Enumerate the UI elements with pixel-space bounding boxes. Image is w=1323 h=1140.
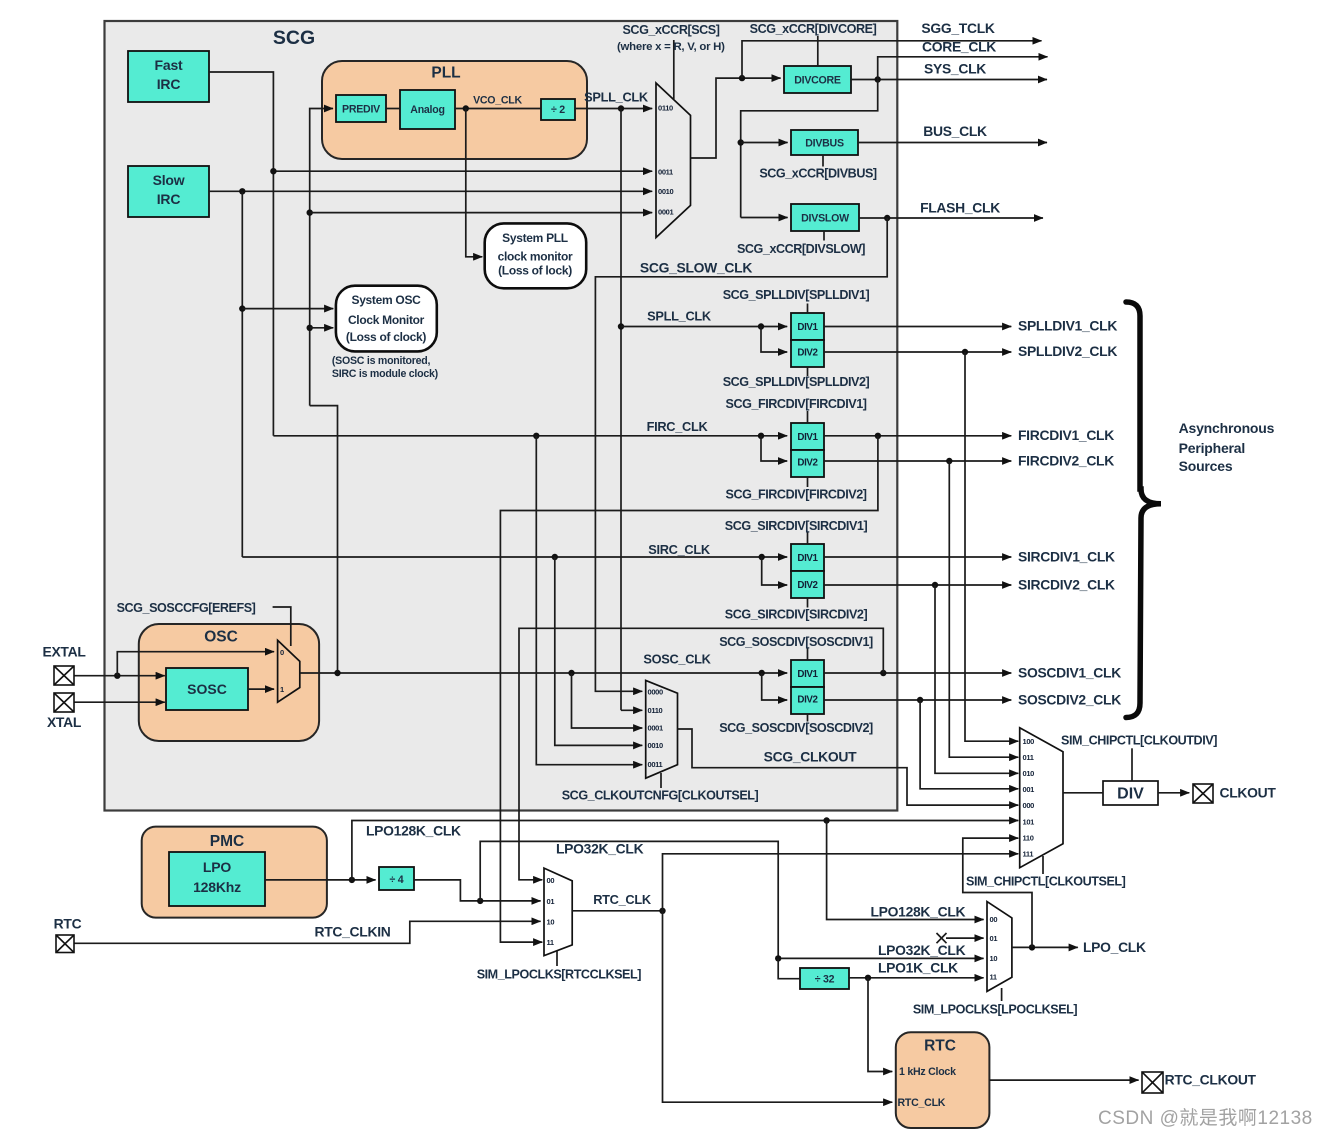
wire RTC_CLKIN to RTC mux 10 (74, 921, 541, 943)
System PLL clock monitor (485, 223, 587, 288)
FIRC DIV2 block (791, 450, 824, 477)
wire RTC_CLK to SIM mux 111 (663, 854, 1019, 911)
wire FIRC to SCS mux 0011 (270, 168, 652, 174)
svg-text:DIV2: DIV2 (797, 458, 818, 469)
wire Slow IRC output to SCS mux 0010 (209, 188, 652, 194)
svg-text:(Loss of lock): (Loss of lock) (498, 264, 572, 278)
wire LPO32K_CLK to LPO mux 10 (480, 841, 983, 961)
svg-text:0110: 0110 (648, 706, 663, 715)
svg-text:SCG_SIRCDIV[SIRCDIV1]: SCG_SIRCDIV[SIRCDIV1] (725, 519, 868, 533)
svg-text:SOSC_CLK: SOSC_CLK (643, 652, 711, 667)
wire SIRC DIV1 select (807, 532, 809, 544)
svg-text:SCG_xCCR[DIVCORE]: SCG_xCCR[DIVCORE] (750, 22, 877, 36)
svg-text:DIVBUS: DIVBUS (805, 138, 844, 150)
svg-text:10: 10 (990, 954, 998, 963)
svg-text:Peripheral: Peripheral (1179, 440, 1245, 456)
SOSC DIV2 block (791, 687, 824, 714)
wire CLKOUTDIV select (1131, 748, 1133, 781)
svg-text:0010: 0010 (658, 187, 673, 196)
divide-by-2 block (541, 99, 575, 120)
svg-text:Clock Monitor: Clock Monitor (348, 313, 425, 327)
SPLL DIV1 block (791, 313, 824, 340)
wire FIRC DIV2 branch (761, 436, 787, 461)
wire EREFS select hook (273, 607, 291, 646)
wire SIRCDIV1_CLK (824, 556, 1011, 558)
pad XTAL (54, 693, 74, 712)
wire harness (all nets) (74, 36, 1189, 1102)
svg-text:IRC: IRC (157, 76, 181, 92)
wire SGG_TCLK (742, 41, 1042, 78)
svg-text:CORE_CLK: CORE_CLK (922, 39, 996, 55)
wire SIRCDIV2_CLK (824, 582, 1011, 588)
wire SPLL_CLK to SCS mux 0110 (575, 105, 652, 111)
svg-text:Sources: Sources (1179, 458, 1233, 474)
svg-text:0001: 0001 (658, 208, 673, 217)
svg-text:SPLL_CLK: SPLL_CLK (584, 90, 649, 105)
DIVSLOW block (791, 204, 859, 231)
svg-text:SCG_SIRCDIV[SIRCDIV2]: SCG_SIRCDIV[SIRCDIV2] (725, 608, 868, 622)
svg-text:10: 10 (547, 918, 555, 927)
svg-text:SPLL_CLK: SPLL_CLK (647, 309, 712, 324)
svg-text:DIV2: DIV2 (797, 695, 818, 706)
svg-text:SPLLDIV2_CLK: SPLLDIV2_CLK (1018, 343, 1117, 359)
wire SPLLDIV2_CLK (824, 349, 1011, 355)
svg-text:100: 100 (1023, 737, 1035, 746)
wire LPO_CLK to SIM mux 110 (963, 838, 1032, 947)
svg-text:DIV1: DIV1 (797, 669, 818, 680)
SPLL DIV2 block (791, 340, 824, 367)
wire SIRC vertical (239, 191, 245, 557)
wire FIRCDIV2_CLK (824, 458, 1011, 464)
wire SPLL to SCG CLKOUT mux 0110 (621, 709, 642, 711)
svg-text:SCG_xCCR[DIVBUS]: SCG_xCCR[DIVBUS] (759, 167, 877, 181)
svg-text:VCO_CLK: VCO_CLK (473, 95, 522, 107)
wire LPO mux select (1001, 988, 1003, 1001)
svg-text:SCG_SPLLDIV[SPLLDIV1]: SCG_SPLLDIV[SPLLDIV1] (723, 288, 870, 302)
wire SIM CLKOUT mux select (1042, 856, 1044, 874)
wire FIRC_CLK row (273, 433, 787, 439)
pad symbols group (54, 666, 1213, 1093)
svg-text:LPO32K_CLK: LPO32K_CLK (556, 841, 644, 857)
wire core clock down feed (738, 80, 878, 218)
svg-text:FIRCDIV2_CLK: FIRCDIV2_CLK (1018, 453, 1114, 469)
wire SIRC to SCG CLKOUT mux 0010 (555, 557, 643, 745)
wire XTAL input (74, 701, 165, 703)
wire 1kHz to RTC block (868, 978, 892, 1072)
wire SOSC to SCG CLKOUT mux 0001 (572, 673, 643, 728)
wire SPLL_CLK row (621, 323, 787, 329)
svg-text:CLKOUT: CLKOUT (1220, 785, 1277, 801)
svg-text:DIV: DIV (1117, 786, 1144, 803)
svg-text:0010: 0010 (648, 741, 663, 750)
wire RTC block output (989, 1079, 1138, 1081)
wire SOSC to SCS mux 0001 (310, 212, 653, 214)
svg-text:LPO: LPO (203, 859, 231, 875)
svg-text:SCG: SCG (273, 27, 315, 49)
wire SPLLDIV1_CLK (824, 326, 1011, 328)
wire SCS mux output to DIVCORE (691, 75, 781, 158)
svg-text:CSDN @就是我啊12138: CSDN @就是我啊12138 (1098, 1107, 1313, 1129)
svg-text:SCG_CLKOUTCNFG[CLKOUTSEL]: SCG_CLKOUTCNFG[CLKOUTSEL] (562, 789, 759, 803)
RTC block container (896, 1032, 990, 1128)
svg-text:DIVCORE: DIVCORE (794, 75, 841, 87)
svg-text:SIRC_CLK: SIRC_CLK (648, 542, 711, 557)
svg-text:RTC_CLKIN: RTC_CLKIN (314, 924, 390, 940)
wire PREDIV to Analog (386, 108, 400, 110)
svg-text:LPO128K_CLK: LPO128K_CLK (871, 904, 966, 920)
wire BUS_CLK (858, 142, 1047, 144)
wire SOSCDIV1 to RTC mux 00 (519, 628, 883, 880)
wire VCO to PLL monitor (466, 109, 483, 257)
pad EXTAL (54, 666, 74, 685)
svg-text:0: 0 (280, 648, 284, 657)
wire no-connect to LPO mux 01 (937, 933, 984, 943)
svg-text:PMC: PMC (210, 833, 244, 850)
svg-text:SYS_CLK: SYS_CLK (924, 61, 986, 77)
svg-text:Analog: Analog (410, 104, 444, 116)
wire SIRCDIV2 to SIM mux 010 (935, 585, 1018, 773)
LPO clock select mux (987, 902, 1012, 992)
svg-text:PREDIV: PREDIV (342, 104, 380, 116)
svg-text:010: 010 (1023, 769, 1035, 778)
svg-text:LPO128K_CLK: LPO128K_CLK (366, 823, 461, 839)
svg-text:0001: 0001 (648, 724, 663, 733)
RTC clock select mux (544, 868, 572, 956)
SCG CLKOUT mux (646, 680, 678, 778)
svg-text:0011: 0011 (658, 168, 673, 177)
svg-text:Fast: Fast (155, 57, 184, 73)
svg-text:RTC_CLK: RTC_CLK (593, 892, 652, 907)
wire RTC mux output RTC_CLK (572, 908, 666, 914)
FIRC DIV1 block (791, 423, 824, 450)
DIV block (CLKOUT divider) (1103, 781, 1158, 805)
SCG module box (105, 21, 898, 811)
svg-text:000: 000 (1023, 801, 1035, 810)
SOSC DIV1 block (791, 660, 824, 687)
divide-by-32 block (800, 968, 849, 989)
svg-text:BUS_CLK: BUS_CLK (923, 123, 987, 139)
wire DIV output to CLKOUT pad (1158, 792, 1189, 794)
svg-text:RTC_CLK: RTC_CLK (898, 1097, 946, 1109)
PREDIV block (336, 95, 386, 122)
svg-text:FLASH_CLK: FLASH_CLK (920, 200, 1000, 216)
svg-text:SCG_SLOW_CLK: SCG_SLOW_CLK (640, 260, 752, 276)
wire SOSC vertical to PREDIV (307, 109, 334, 406)
svg-text:XTAL: XTAL (47, 714, 82, 730)
wire SPLL vertical (618, 109, 624, 711)
svg-text:SIRCDIV1_CLK: SIRCDIV1_CLK (1018, 549, 1115, 565)
wire OSC monitor input 2 (310, 327, 334, 329)
svg-text:DIV1: DIV1 (797, 322, 818, 333)
wire EXTAL input (74, 673, 165, 679)
wire SOSC DIV2 branch (762, 673, 788, 700)
wire LPO1K_CLK to LPO mux 11 (849, 975, 984, 981)
wire RTC_CLK to RTC block (663, 911, 893, 1102)
brace Asynchronous Peripheral Sources (1126, 302, 1161, 718)
wire SOSC_CLK row (300, 670, 787, 676)
svg-text:(where x = R, V, or H): (where x = R, V, or H) (617, 41, 725, 53)
svg-text:Slow: Slow (153, 172, 185, 188)
svg-text:PLL: PLL (431, 65, 460, 82)
svg-text:SIM_CHIPCTL[CLKOUTDIV]: SIM_CHIPCTL[CLKOUTDIV] (1061, 734, 1217, 748)
svg-text:(Loss of clock): (Loss of clock) (346, 330, 426, 344)
SCS system clock mux (656, 83, 691, 238)
wire SIM mux output to DIV (1063, 792, 1103, 794)
SOSC block (166, 668, 248, 710)
svg-text:128Khz: 128Khz (193, 879, 241, 895)
SIRC DIV2 block (791, 571, 824, 598)
wire SCG_SLOW_CLK to SCG CLKOUT mux 0000 (595, 218, 887, 691)
svg-text:IRC: IRC (157, 191, 181, 207)
svg-text:SCG_CLKOUT: SCG_CLKOUT (764, 749, 858, 765)
svg-text:RTC: RTC (924, 1038, 956, 1055)
svg-text:÷ 4: ÷ 4 (390, 874, 404, 886)
svg-text:÷ 32: ÷ 32 (815, 974, 835, 986)
svg-text:SCG_SOSCCFG[EREFS]: SCG_SOSCCFG[EREFS] (117, 601, 256, 615)
wire SPLL DIV2 select (807, 367, 809, 376)
PLL block container (322, 61, 587, 159)
wire SCG CLKOUT mux select (660, 773, 662, 788)
svg-text:SIM_LPOCLKS[LPOCLKSEL]: SIM_LPOCLKS[LPOCLKSEL] (913, 1003, 1078, 1017)
svg-text:RTC: RTC (54, 916, 82, 932)
wire SYS_CLK from DIVCORE (851, 76, 1047, 82)
DIVBUS block (791, 130, 858, 155)
svg-text:SCG_FIRCDIV[FIRCDIV1]: SCG_FIRCDIV[FIRCDIV1] (726, 397, 867, 411)
wire SIRC DIV2 select (807, 598, 809, 608)
Fast IRC block (128, 51, 209, 102)
Analog block (400, 90, 455, 129)
svg-text:÷ 2: ÷ 2 (551, 104, 565, 116)
wire SIRC_CLK row (242, 554, 787, 560)
wire SPLLDIV2 to SIM mux 100 (965, 352, 1018, 741)
svg-text:011: 011 (1023, 753, 1034, 762)
wire DIVCORE select (817, 36, 819, 66)
wire div4 output to RTC mux 01 (414, 880, 541, 904)
svg-text:0000: 0000 (648, 688, 663, 697)
wire SPLL DIV2 branch (761, 327, 787, 353)
wire SOSCDIV1_CLK (824, 670, 1011, 676)
svg-text:SIRCDIV2_CLK: SIRCDIV2_CLK (1018, 577, 1115, 593)
pad CLKOUT (1193, 784, 1213, 803)
svg-text:SOSCDIV2_CLK: SOSCDIV2_CLK (1018, 692, 1121, 708)
wire LPO128K_CLK to SIM mux 101 (352, 817, 1018, 880)
pad RTC (56, 935, 74, 953)
svg-text:111: 111 (1023, 850, 1034, 859)
svg-text:00: 00 (990, 915, 998, 924)
SIM CLKOUT mux (1020, 728, 1063, 868)
svg-text:SOSC: SOSC (187, 681, 227, 697)
note SOSC monitored (332, 355, 438, 380)
wire Analog to div2 (455, 105, 541, 111)
svg-text:SCG_SOSCDIV[SOSCDIV1]: SCG_SOSCDIV[SOSCDIV1] (719, 635, 873, 649)
wire SOSC riser step (310, 406, 338, 673)
OSC bypass mux (278, 640, 300, 702)
svg-text:0011: 0011 (648, 760, 663, 769)
svg-text:0110: 0110 (658, 104, 673, 113)
wire LPO output (265, 877, 376, 883)
wire SOSC output to OSC mux 1 (248, 688, 274, 690)
svg-text:11: 11 (547, 938, 554, 947)
svg-text:SCG_SOSCDIV[SOSCDIV2]: SCG_SOSCDIV[SOSCDIV2] (719, 721, 873, 735)
wire FIRCDIV1 to RTC mux 11 (500, 436, 878, 942)
LPO 128Khz block (169, 852, 265, 906)
label Asynchronous Peripheral Sources (1179, 420, 1275, 474)
System OSC Clock Monitor (336, 286, 437, 352)
wire EXTAL bypass to OSC mux 0 (117, 652, 274, 676)
Slow IRC block (128, 166, 209, 217)
svg-text:01: 01 (990, 934, 998, 943)
svg-text:SOSCDIV1_CLK: SOSCDIV1_CLK (1018, 665, 1121, 681)
svg-text:001: 001 (1023, 785, 1035, 794)
svg-text:System PLL: System PLL (502, 231, 568, 245)
wire RTC mux select (556, 951, 558, 966)
wire FIRCDIV2 to SIM mux 011 (949, 461, 1018, 757)
wire FIRCDIV1_CLK (824, 433, 1011, 439)
wire SCG_CLKOUT to SIM mux 000 (678, 729, 1019, 805)
svg-text:SIM_CHIPCTL[CLKOUTSEL]: SIM_CHIPCTL[CLKOUTSEL] (966, 875, 1126, 889)
pad RTC_CLKOUT (1142, 1072, 1163, 1093)
svg-text:clock monitor: clock monitor (498, 250, 573, 264)
DIVCORE block (784, 66, 851, 93)
svg-text:110: 110 (1023, 834, 1034, 843)
svg-text:System OSC: System OSC (351, 293, 421, 307)
svg-text:DIV1: DIV1 (797, 553, 818, 564)
PMC block container (142, 827, 327, 918)
wire FIRC DIV2 select (807, 477, 809, 487)
svg-text:LPO1K_CLK: LPO1K_CLK (878, 960, 958, 976)
wire SIRC DIV2 branch (762, 557, 788, 585)
svg-text:LPO_CLK: LPO_CLK (1083, 939, 1146, 955)
svg-text:RTC_CLKOUT: RTC_CLKOUT (1165, 1072, 1257, 1088)
svg-text:FIRC_CLK: FIRC_CLK (647, 419, 709, 434)
wire DIVSLOW select (823, 231, 825, 241)
oscillator OSC container (139, 624, 319, 741)
wire SPLL DIV1 select (807, 304, 809, 314)
wire FIRC DIV1 select (807, 411, 809, 423)
SIRC DIV1 block (791, 544, 824, 571)
svg-text:DIV1: DIV1 (797, 432, 818, 443)
svg-text:DIV2: DIV2 (797, 580, 818, 591)
svg-text:1 kHz Clock: 1 kHz Clock (899, 1066, 956, 1078)
wire FIRC to SCG CLKOUT mux 0011 (536, 436, 642, 765)
svg-text:EXTAL: EXTAL (43, 644, 87, 660)
svg-text:Asynchronous: Asynchronous (1179, 420, 1275, 436)
wire DIVSLOW input (741, 217, 788, 219)
svg-text:DIV2: DIV2 (797, 348, 818, 359)
wire DIVBUS select (822, 155, 824, 167)
svg-text:11: 11 (990, 973, 997, 982)
wire SOSCDIV2 to SIM mux 001 (920, 700, 1018, 789)
svg-text:SCG_xCCR[DIVSLOW]: SCG_xCCR[DIVSLOW] (737, 242, 865, 256)
wire Fast IRC output (209, 72, 273, 436)
wire LPO128K to LPO mux 00 (827, 821, 984, 920)
svg-text:LPO32K_CLK: LPO32K_CLK (878, 942, 966, 958)
svg-text:SCG_FIRCDIV[FIRCDIV2]: SCG_FIRCDIV[FIRCDIV2] (726, 488, 867, 502)
wire SOSC DIV1 select (807, 648, 809, 660)
wire SCS mux select (673, 40, 675, 99)
svg-text:DIVSLOW: DIVSLOW (801, 213, 849, 225)
divide-by-4 block (379, 867, 414, 890)
svg-text:SIM_LPOCLKS[RTCCLKSEL]: SIM_LPOCLKS[RTCCLKSEL] (477, 968, 642, 982)
svg-text:00: 00 (547, 876, 555, 885)
wire SOSC DIV2 select (807, 714, 809, 722)
wire div32 input (778, 958, 800, 978)
wire FLASH_CLK (859, 215, 1043, 221)
wire SOSCDIV2_CLK (824, 697, 1011, 703)
svg-text:FIRCDIV1_CLK: FIRCDIV1_CLK (1018, 427, 1114, 443)
svg-text:1: 1 (280, 685, 284, 694)
svg-text:SIRC is module clock): SIRC is module clock) (332, 368, 438, 380)
svg-text:(SOSC is monitored,: (SOSC is monitored, (332, 355, 431, 367)
wire CORE_CLK (878, 57, 1048, 80)
wire DIVBUS input (741, 142, 788, 144)
wire LPO_CLK output (1012, 944, 1078, 950)
svg-text:SCG_xCCR[SCS]: SCG_xCCR[SCS] (622, 23, 719, 37)
svg-text:SCG_SPLLDIV[SPLLDIV2]: SCG_SPLLDIV[SPLLDIV2] (723, 375, 870, 389)
svg-text:SGG_TCLK: SGG_TCLK (921, 20, 995, 36)
svg-text:SPLLDIV1_CLK: SPLLDIV1_CLK (1018, 318, 1117, 334)
wire OSC monitor input 1 (242, 308, 333, 310)
svg-text:01: 01 (547, 897, 555, 906)
svg-text:101: 101 (1023, 818, 1035, 827)
svg-text:OSC: OSC (204, 629, 238, 646)
